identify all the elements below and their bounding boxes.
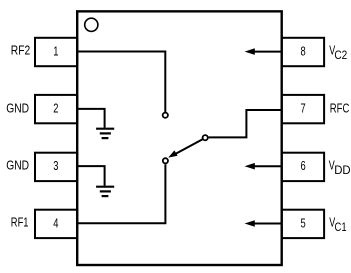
svg-text:5: 5: [301, 215, 306, 230]
svg-text:8: 8: [301, 43, 306, 58]
svg-text:GND: GND: [6, 157, 29, 172]
svg-text:DD: DD: [334, 163, 351, 177]
svg-text:RF2: RF2: [11, 43, 30, 58]
svg-text:RFC: RFC: [330, 100, 350, 115]
svg-text:RF1: RF1: [11, 215, 29, 230]
svg-text:C2: C2: [334, 48, 347, 62]
svg-text:6: 6: [301, 158, 306, 173]
svg-text:1: 1: [53, 43, 58, 58]
svg-text:3: 3: [53, 158, 58, 173]
svg-text:C1: C1: [335, 220, 347, 234]
svg-text:2: 2: [53, 101, 58, 116]
svg-text:4: 4: [53, 215, 58, 230]
svg-text:GND: GND: [6, 100, 29, 115]
svg-text:7: 7: [301, 101, 306, 116]
